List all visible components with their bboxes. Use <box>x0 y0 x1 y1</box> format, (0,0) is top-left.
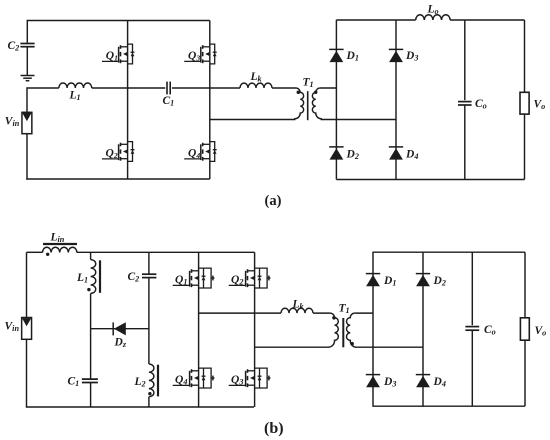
wire (b) rectifier left leg <box>372 252 374 407</box>
source Vin (b) <box>22 318 32 340</box>
inductor Lk (b) <box>281 308 313 313</box>
wire (a) output bottom rail <box>336 179 524 181</box>
transistor Q2 <box>102 142 135 162</box>
polarity dot (a) primary <box>297 91 301 95</box>
wire (a) secondary top to rectifier <box>320 87 337 89</box>
transistor Q4 <box>184 142 217 162</box>
wire (b) L1 top lead <box>90 252 92 259</box>
wire (a) mid wire left segment <box>27 87 59 89</box>
polarity dot L2 <box>148 392 151 395</box>
inductor L1 (a) <box>59 83 92 88</box>
transistor Q3 <box>184 44 217 64</box>
wire (a) C1 to Lk <box>172 87 240 89</box>
diode D1 (b) <box>366 274 380 287</box>
wire (b) leg to primary bottom <box>255 346 330 348</box>
capacitor C1 (a) <box>167 82 170 95</box>
capacitor C1 (b) <box>82 379 98 382</box>
wire (a) left bridge leg <box>127 21 129 180</box>
polarity dot Lin <box>46 253 49 256</box>
wire (b) left edge upper <box>26 252 28 317</box>
wire (a) Vin bottom lead <box>26 134 28 180</box>
transformer T1 (a) secondary winding <box>312 88 321 120</box>
wire (a) Vo bottom lead <box>524 114 526 179</box>
wire (b) top rail <box>77 251 255 253</box>
wire (b) C2 to L2 <box>148 278 150 364</box>
wire (a) Vo top lead <box>524 20 526 92</box>
wire (b) leg to Lk <box>199 312 281 314</box>
wire (b) C1 bottom lead <box>90 383 92 408</box>
wire (b) secondary top to rectifier <box>354 312 373 314</box>
wire (b) left Q leg <box>198 252 200 407</box>
transistor Q1 (b) <box>173 268 215 288</box>
diode D3 (b) <box>366 375 380 388</box>
wire (a) top rail <box>27 20 210 22</box>
transformer T1 (a) primary winding <box>295 88 304 120</box>
capacitor C2 (a) <box>20 44 34 47</box>
inductor Lin core bar <box>43 243 77 245</box>
inductor Lk (a) <box>240 83 272 88</box>
transformer T1 (a) core <box>307 91 309 120</box>
inductor Lo (a) <box>416 15 450 20</box>
wire (b) Dz branch <box>91 328 149 330</box>
wire (a) Vin top lead <box>26 87 28 112</box>
wire (b) C2 top lead <box>148 252 150 274</box>
inductor L2 winding <box>149 364 154 397</box>
wire (b) output bottom rail <box>373 405 525 407</box>
capacitor C2 (b) <box>142 274 156 277</box>
wire (a) secondary bottom to rectifier <box>321 119 396 121</box>
wire (a) C2 bottom lead <box>26 47 28 76</box>
transformer T1 (b) secondary winding <box>347 313 357 347</box>
transistor Q4 (b) <box>173 368 215 388</box>
wire (b) bottom rail <box>26 406 254 408</box>
polarity dot (b) primary <box>332 316 336 320</box>
wire (a) output top rail left <box>336 19 415 21</box>
diode D2 (a) <box>329 147 343 160</box>
wire (a) Co top lead <box>464 20 466 100</box>
inductor Lin winding <box>43 247 77 252</box>
diode D3 (a) <box>389 49 403 62</box>
wire (b) secondary bottom to rectifier <box>356 346 424 348</box>
load Vo (a) <box>520 92 529 114</box>
wire (a) Co bottom lead <box>464 105 466 180</box>
transformer T1 (b) primary winding <box>329 313 339 347</box>
wire (b) Co bottom lead <box>471 330 473 406</box>
inductor L1 (b) core bar <box>99 260 101 293</box>
wire (a) rectifier right leg <box>395 20 397 180</box>
polarity dot (a) secondary <box>314 91 318 95</box>
wire (b) Vo top lead <box>524 252 526 318</box>
wire (b) L2 bottom lead <box>148 397 150 407</box>
wire (b) left edge lower <box>26 339 28 407</box>
polarity dot L1 (b) <box>87 288 90 291</box>
wire (a) Lk to transformer <box>272 87 296 89</box>
diode D4 (b) <box>416 375 430 388</box>
wire (b) L1 to C1 <box>90 293 92 379</box>
wire (a) bottom rail <box>26 178 210 180</box>
diode D2 (b) <box>416 274 430 287</box>
wire (b) output top rail <box>373 251 525 253</box>
diode D1 (a) <box>329 49 343 62</box>
wire (a) C2 top lead <box>26 20 28 44</box>
transistor Q3 (b) <box>229 368 271 388</box>
wire (b) right Q leg <box>254 252 256 407</box>
wire (a) output top rail right <box>450 19 525 21</box>
wire (a) right bridge leg <box>209 21 211 180</box>
transformer T1 (b) core <box>342 318 344 347</box>
inductor L2 core bar <box>157 365 159 397</box>
transistor Q1 <box>102 44 135 64</box>
wire (a) bridge to primary bottom <box>210 119 296 121</box>
diode D4 (a) <box>389 147 403 160</box>
capacitor Co (b) <box>465 327 479 331</box>
svg-text:(b): (b) <box>264 420 284 437</box>
capacitor Co (a) <box>458 102 472 105</box>
source Vin (a) <box>22 112 32 133</box>
wire (b) top rail to Lin <box>27 251 43 253</box>
wire (a) L1 to C1 <box>92 87 166 89</box>
diode Dz <box>113 322 126 335</box>
transistor Q2 (b) <box>229 268 271 288</box>
wire (a) rectifier left leg <box>335 20 337 180</box>
wire (b) Co top lead <box>471 252 473 325</box>
svg-text:(a): (a) <box>265 193 282 209</box>
ground (a) <box>21 76 35 81</box>
wire (b) Vo bottom lead <box>524 340 526 406</box>
polarity dot (b) secondary <box>350 342 354 346</box>
wire (b) Lk to primary top <box>313 312 331 314</box>
inductor L1 (b) winding <box>91 260 96 294</box>
load Vo (b) <box>520 318 529 340</box>
wire (b) rectifier second leg <box>422 252 424 407</box>
